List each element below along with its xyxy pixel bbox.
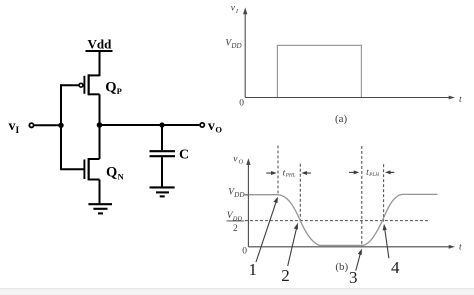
label t_PLH: [366, 168, 379, 178]
wire gate bus: [60, 84, 62, 170]
transistor Q_P: [79, 74, 99, 95]
svg-text:4: 4: [391, 258, 400, 277]
wire capacitor to ground: [161, 157, 163, 187]
svg-text:v: v: [9, 119, 16, 134]
label v_I axis (a): [231, 4, 239, 15]
svg-text:1: 1: [249, 260, 258, 279]
node capacitor junction: [159, 122, 164, 127]
label V_DD graph (a): [225, 38, 241, 50]
svg-text:I: I: [235, 8, 239, 15]
wire output: [100, 124, 200, 126]
node input junction: [58, 123, 63, 128]
t_PLH left arrow: [349, 170, 359, 174]
arrow to point 4: [383, 224, 389, 258]
wire Q_P drain to output node: [99, 94, 101, 126]
dashed vertical at fall start: [277, 146, 279, 195]
label Q_N: [106, 164, 125, 181]
svg-text:v: v: [208, 119, 215, 134]
svg-text:(a): (a): [335, 113, 348, 125]
svg-text:2: 2: [233, 224, 238, 234]
Vdd rail: [86, 50, 113, 52]
dashed vertical at rise start: [361, 146, 363, 246]
y-axis graph (a): [243, 7, 247, 97]
svg-text:2: 2: [281, 266, 290, 285]
wire Q_N gate lead: [61, 168, 84, 170]
dashed vertical at t_PHL crossing: [299, 164, 301, 221]
dashed horizontal at V_DD/2: [245, 220, 429, 222]
capacitor C: [150, 151, 176, 156]
wire output node to capacitor: [161, 125, 163, 150]
svg-text:C: C: [179, 148, 189, 163]
label v_O: [208, 119, 223, 135]
transistor Q_N: [84, 158, 99, 180]
svg-text:0: 0: [242, 247, 247, 257]
label Q_P: [105, 79, 122, 96]
input pulse waveform: [277, 45, 361, 97]
t_PHL left arrow: [266, 171, 276, 175]
output waveform: [249, 194, 438, 245]
label V_DD graph (b): [228, 187, 244, 199]
tick V_DD graph (b): [244, 194, 248, 196]
arrow to point 1: [256, 197, 278, 262]
output terminal: [200, 123, 204, 127]
input terminal: [29, 123, 33, 127]
ground under capacitor: [150, 187, 175, 196]
ground under Q_N: [88, 204, 112, 213]
t_PHL right arrow: [301, 171, 311, 175]
svg-text:(b): (b): [335, 261, 348, 273]
svg-text:DD: DD: [233, 191, 244, 199]
svg-text:PHL: PHL: [285, 173, 296, 179]
wire Q_N drain to output node: [99, 124, 101, 159]
svg-text:Q: Q: [105, 79, 116, 95]
svg-text:O: O: [215, 125, 222, 135]
t_PLH right arrow: [385, 170, 394, 174]
svg-text:PLH: PLH: [368, 172, 379, 178]
label V_DD/2: [227, 211, 245, 234]
y-axis graph (b): [246, 158, 250, 247]
svg-text:Q: Q: [106, 164, 117, 180]
svg-text:0: 0: [239, 98, 244, 108]
svg-text:Vdd: Vdd: [88, 37, 113, 52]
svg-text:I: I: [16, 126, 20, 136]
dashed vertical at t_PLH crossing: [383, 164, 385, 221]
svg-text:t: t: [459, 95, 462, 105]
t-axis graph (a): [245, 96, 455, 100]
svg-text:O: O: [239, 158, 244, 165]
svg-text:N: N: [118, 171, 125, 181]
t-axis graph (b): [248, 245, 455, 249]
wire input: [34, 124, 61, 126]
wire Q_P gate lead: [61, 84, 79, 86]
arrow to point 3: [356, 249, 362, 271]
svg-text:DD: DD: [230, 42, 241, 50]
svg-text:P: P: [117, 86, 122, 96]
label v_O axis (b): [233, 154, 243, 165]
page bottom rule: [0, 289, 474, 295]
label t_PHL: [283, 168, 296, 178]
arrow to point 2: [288, 223, 298, 266]
svg-text:3: 3: [349, 268, 358, 287]
wire Vdd to Q_P source: [99, 51, 101, 76]
svg-text:t: t: [459, 242, 462, 252]
label v_I: [9, 119, 20, 136]
node output junction: [97, 122, 103, 128]
wire Q_N source to ground: [99, 180, 101, 205]
